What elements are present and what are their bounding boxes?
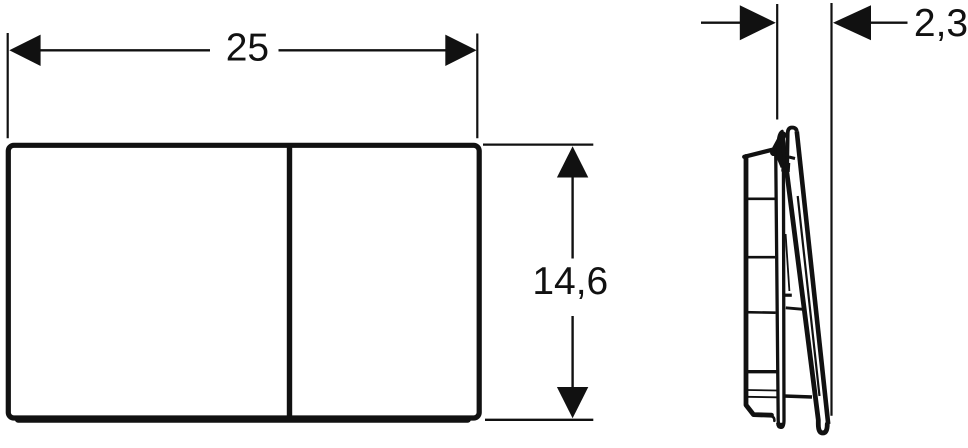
plate fusion bridge <box>782 163 791 173</box>
svg-text:25: 25 <box>226 27 269 70</box>
frame rung 3 <box>746 311 776 314</box>
plate back top cap column <box>777 130 786 168</box>
frame top edge <box>744 150 772 157</box>
frame rung 4 <box>746 370 778 373</box>
plate bottom edge bar <box>15 416 471 423</box>
dimension 14,6 arrow bottom <box>557 387 588 418</box>
svg-text:2,3: 2,3 <box>914 2 968 45</box>
plate front line <box>797 132 828 425</box>
dimension 14,6 line upper segment <box>571 175 573 259</box>
plate back line <box>782 135 827 434</box>
plate front view outline <box>8 145 479 418</box>
dimension 25 arrow right <box>445 35 476 66</box>
dimension 25 line right segment <box>279 49 449 51</box>
connector mid <box>786 308 803 310</box>
frame rung 2 <box>746 256 775 259</box>
dimension 2,3 arrow left (pointing right) <box>740 5 776 40</box>
dimension 2,3 line right <box>870 22 908 24</box>
frame right edge + tab (U pocket) <box>776 150 784 427</box>
dimension 2,3 extension line right <box>830 3 832 416</box>
dimension 14,6 extension line bottom <box>485 419 593 421</box>
button divider <box>287 146 292 418</box>
dimension 2,3 line left <box>701 22 741 24</box>
frame thin rung 5 <box>747 389 778 392</box>
dimension 25 extension line right <box>476 34 478 139</box>
plate top rim loop <box>787 128 797 165</box>
frame thin rung 6 <box>747 396 778 399</box>
svg-text:14,6: 14,6 <box>532 260 608 303</box>
dimension 14,6 arrow top <box>557 146 588 177</box>
frame left edge <box>746 157 772 416</box>
dimension 25 extension line left <box>7 33 9 138</box>
dimension 25 arrow left <box>9 35 40 66</box>
lever detail <box>786 234 790 291</box>
frame pocket bottom fill <box>777 423 785 428</box>
frame bottom edge end hook <box>772 416 775 421</box>
connector low <box>784 396 812 397</box>
plate rim loop bottom <box>789 157 795 159</box>
dimension 14,6 line lower segment <box>571 316 573 389</box>
frame wedge to plate <box>774 135 784 153</box>
dimension 2,3 arrow right (pointing left) <box>833 5 871 40</box>
plate inner thin line <box>798 196 820 396</box>
frame rung 1 <box>746 198 776 201</box>
dimension 25 line left segment <box>38 49 210 51</box>
dimension 2,3 extension line left <box>776 4 778 120</box>
dimension 14,6 extension line top <box>483 143 593 145</box>
